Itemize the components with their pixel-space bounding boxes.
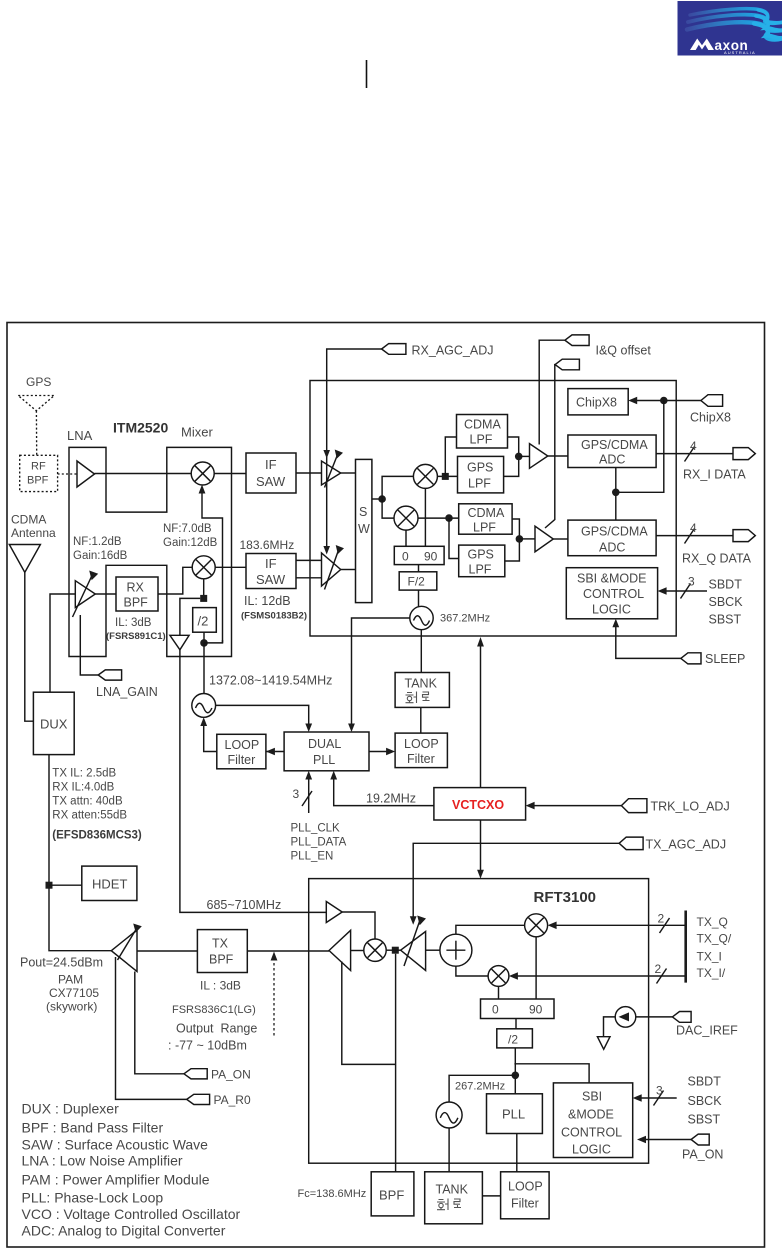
TX output amp (points left) [329, 930, 351, 970]
wire SW output node [372, 498, 382, 500]
flag I&Q offset upper [565, 335, 589, 346]
TX BPF [197, 930, 247, 973]
wire PAM to TX BPF [137, 950, 197, 952]
wires LPF pair1 outputs join [504, 437, 519, 476]
svg-text:RX_AGC_ADJ: RX_AGC_ADJ [412, 344, 494, 358]
svg-text:VCTCXO: VCTCXO [452, 798, 504, 812]
wire LOOP filter to VCO [204, 722, 217, 752]
wire mixer4 to LPF pair 2 [418, 517, 459, 519]
svg-text:CDMA: CDMA [11, 513, 46, 527]
wire DUX top to RX varamp input [50, 594, 75, 692]
svg-text:ADC: Analog to Digital Convert: ADC: Analog to Digital Converter [22, 1223, 226, 1239]
HDET [82, 866, 137, 900]
svg-text:PLL_CLK: PLL_CLK [291, 823, 341, 835]
svg-text:LOOP: LOOP [404, 737, 439, 751]
wire node to TX osc [449, 1075, 515, 1102]
svg-text:SBCK: SBCK [709, 595, 744, 609]
wire ADC2 to RX_Q DATA [656, 535, 733, 537]
svg-text:NF:7.0dB: NF:7.0dB [163, 523, 212, 535]
wire TANK to LOOP filter2 [420, 707, 422, 733]
PLL control bus [308, 776, 310, 814]
node at VCO feed [200, 639, 208, 647]
svg-text:ChipX8: ChipX8 [576, 396, 617, 410]
wire VCTCXO down to RFT3100 [480, 820, 482, 874]
wire node to mixer3 [382, 476, 413, 499]
wire ChipX8 node to ADC clock node [616, 401, 664, 493]
TX BPF(IF) block [371, 1172, 414, 1216]
wire RF BPF to LNA (dotted) [58, 473, 77, 475]
wire node to mixer1 LO riser [204, 640, 223, 643]
flag TRK_LO_ADJ [621, 799, 647, 813]
korean hoeros RX [406, 692, 430, 704]
svg-text:LPF: LPF [468, 477, 491, 491]
svg-text:Antenna: Antenna [11, 526, 56, 540]
wire mixer1 to IF SAW1 [214, 473, 246, 475]
svg-text:Output Range: Output Range [176, 1022, 257, 1036]
PAM amplifier (variable, points left) [111, 930, 137, 972]
divider /2 [193, 608, 217, 633]
mixer M7 [488, 966, 509, 987]
svg-text:19.2MHz: 19.2MHz [366, 792, 416, 806]
wire buffer down to TX path [180, 650, 326, 913]
svg-text:LNA : Low Noise Amplifier: LNA : Low Noise Amplifier [22, 1153, 183, 1169]
TX LO buffer amp [326, 902, 342, 923]
wire SBI bus in [661, 590, 707, 592]
RFT3100 block [309, 879, 649, 1164]
svg-text:CDMA: CDMA [468, 506, 505, 520]
wire RX VCO down to TANK [420, 630, 422, 673]
SBI &MODE CONTROL LOGIC (TX) [553, 1083, 632, 1158]
svg-text:BPF: BPF [27, 475, 49, 487]
wire PA_ON to SBI (TX) [641, 1139, 692, 1141]
wire /2 to node [203, 632, 205, 643]
wire ADC1 to RX_I DATA [656, 453, 733, 455]
wire PLL to TX LOOP filter [516, 1134, 518, 1172]
wire RX_AGC_ADJ to varamps [327, 349, 382, 550]
svg-text:SAW: SAW [256, 474, 286, 489]
header tick mark [366, 60, 368, 88]
svg-text:PLL_EN: PLL_EN [291, 851, 334, 863]
wire varamp to RX BPF [95, 593, 116, 595]
svg-text:LOOP: LOOP [225, 738, 260, 752]
svg-text:DUX: DUX [40, 717, 68, 732]
IF SAW2 [246, 554, 296, 589]
wire buffer2 to ADC2 [553, 538, 568, 540]
TX divider /2 [497, 1029, 533, 1048]
wire node to buffer2 [519, 538, 535, 540]
junction square on LO line [200, 595, 207, 602]
svg-text:GPS: GPS [468, 548, 494, 562]
mixer M5 [364, 939, 386, 961]
LOOP Filter (left) [217, 734, 266, 769]
wire 19.2MHz from VCTCXO to DUAL PLL [334, 776, 434, 806]
svg-text:PLL: PLL [502, 1107, 525, 1122]
svg-text:SAW: SAW [256, 572, 286, 587]
svg-text:90: 90 [529, 1003, 543, 1017]
mixer1 LO feed [202, 489, 223, 643]
flag SLEEP [681, 653, 701, 664]
svg-text:PLL: PLL [313, 753, 335, 767]
svg-text:TX IL: 2.5dB: TX IL: 2.5dB [52, 768, 116, 780]
svg-text:: -77 ~ 10dBm: : -77 ~ 10dBm [168, 1039, 247, 1053]
wire mixer3 to LPF pair 1 [437, 475, 457, 477]
svg-text:LOGIC: LOGIC [592, 603, 631, 617]
svg-text:GPS: GPS [467, 461, 493, 475]
svg-text:BPF: BPF [379, 1188, 404, 1203]
svg-text:CX77105: CX77105 [49, 986, 99, 1000]
wire node to VCO [203, 643, 205, 694]
svg-text:IF: IF [265, 556, 277, 571]
svg-text:(FSRS891C1): (FSRS891C1) [106, 631, 166, 642]
wire mixer5 node to TX BPF(IF) [395, 954, 397, 1172]
wire square node to TX LO buffer [180, 598, 200, 635]
svg-text:NF:1.2dB: NF:1.2dB [73, 536, 122, 548]
svg-text:(EFSD836MCS3): (EFSD836MCS3) [52, 830, 142, 842]
svg-text:ITM2520: ITM2520 [113, 420, 168, 436]
svg-text:3: 3 [656, 1084, 663, 1098]
svg-text:RX_I DATA: RX_I DATA [683, 468, 746, 482]
svg-text:CONTROL: CONTROL [561, 1126, 622, 1140]
svg-text:TX_AGC_ADJ: TX_AGC_ADJ [646, 838, 727, 852]
svg-text:LPF: LPF [473, 521, 496, 535]
svg-text:DAC_IREF: DAC_IREF [676, 1024, 738, 1038]
svg-text:RFT3100: RFT3100 [534, 889, 597, 906]
RX VCO oscillator [410, 606, 433, 629]
mixer M6 [525, 914, 548, 937]
svg-text:Filter: Filter [228, 753, 256, 767]
svg-text:SAW : Surface Acoustic Wave: SAW : Surface Acoustic Wave [22, 1137, 209, 1153]
RX back-end block [310, 381, 676, 637]
svg-text:GPS: GPS [26, 375, 51, 389]
svg-text:HDET: HDET [92, 877, 127, 892]
TX phase splitter 0 90 [481, 999, 555, 1019]
svg-text:4: 4 [690, 521, 697, 535]
flag TX_AGC_ADJ [619, 837, 643, 850]
divider F/2 [399, 572, 437, 590]
svg-text:FSRS836C1(LG): FSRS836C1(LG) [172, 1004, 256, 1016]
wire varamp1 to SW [341, 472, 356, 474]
svg-text:PA_R0: PA_R0 [214, 1093, 251, 1107]
svg-text:CONTROL: CONTROL [583, 587, 644, 601]
SBI control tap [514, 1064, 589, 1083]
svg-text:2: 2 [655, 962, 662, 976]
svg-text:CDMA: CDMA [464, 418, 501, 432]
wire I&Q offset 2 to buffer2 [545, 365, 555, 528]
feedback tap to TX output amp [342, 962, 396, 1065]
svg-text:PA_ON: PA_ON [211, 1068, 251, 1082]
wire PA_R0 flag to PAM [116, 957, 187, 1099]
CDMA LPF 2 [459, 504, 512, 534]
wire DAC_IREF flag to source [636, 1016, 673, 1018]
svg-text:LPF: LPF [469, 563, 492, 577]
svg-text:Filter: Filter [407, 752, 435, 766]
korean hoeros TX [437, 1199, 461, 1211]
mixer2 LO feed [203, 579, 205, 599]
svg-text:PLL_DATA: PLL_DATA [291, 837, 347, 849]
mixer M2 [192, 556, 215, 579]
wire node to buffer1 [519, 455, 530, 457]
svg-text:LOGIC: LOGIC [572, 1143, 611, 1157]
ChipX8 block [568, 389, 628, 415]
mixer M3 (I) [413, 464, 437, 488]
svg-text:1372.08~1419.54MHz: 1372.08~1419.54MHz [209, 674, 332, 688]
wire RX VCO to DUAL PLL [352, 618, 410, 729]
svg-text:0: 0 [402, 550, 409, 564]
IF SAW2 differential outputs [296, 559, 322, 561]
TX VCO oscillator (1372-1419MHz) [192, 694, 216, 718]
junction square at HDET tap [46, 882, 53, 889]
bus slash RX_I [685, 447, 695, 462]
svg-text:367.2MHz: 367.2MHz [440, 613, 490, 625]
GPS antenna (dotted) [18, 396, 54, 456]
svg-text:TANK: TANK [436, 1183, 469, 1197]
TX variable amp (points left) [401, 932, 426, 971]
svg-text:LOOP: LOOP [508, 1180, 543, 1194]
svg-text:SBCK: SBCK [688, 1094, 723, 1108]
svg-text:LNA: LNA [67, 428, 93, 443]
svg-text:GPS/CDMA: GPS/CDMA [581, 438, 648, 452]
junction square after mixer5 [392, 947, 399, 954]
TX IQ bus bar [684, 911, 687, 983]
svg-text:SBI: SBI [582, 1090, 602, 1104]
mixer6 LO drop [535, 937, 537, 999]
svg-text:IL: 12dB: IL: 12dB [244, 594, 291, 608]
Q buffer amp [535, 526, 553, 552]
GPS/CDMA ADC 2 [568, 520, 656, 556]
svg-text:267.2MHz: 267.2MHz [455, 1081, 505, 1093]
svg-text:Gain:16dB: Gain:16dB [73, 550, 128, 562]
wire DUAL PLL to LOOP filter right [369, 751, 391, 753]
svg-text:SBI &MODE: SBI &MODE [577, 572, 646, 586]
TANK block (RX) [395, 673, 449, 708]
svg-text:SBST: SBST [688, 1113, 721, 1127]
svg-text:BPF: BPF [124, 596, 149, 610]
flag DAC_IREF [672, 1012, 691, 1023]
SBI &MODE CONTROL LOGIC (RX) [566, 568, 657, 619]
svg-text:LPF: LPF [470, 433, 493, 447]
svg-text:TRK_LO_ADJ: TRK_LO_ADJ [651, 800, 730, 814]
IF variable amp 1 [322, 461, 341, 485]
wire VCTCXO up into RX block [480, 646, 482, 788]
wire TX TANK to TX LOOP filter [482, 1195, 500, 1197]
RX BPF [116, 577, 158, 611]
wire node to mixer4 [382, 499, 394, 518]
svg-text:PAM : Power Amplifier Module: PAM : Power Amplifier Module [22, 1172, 210, 1188]
wires LPF pair2 outputs join [505, 519, 520, 561]
wire DUX bottom to PAM line [49, 755, 111, 951]
svg-text:TX attn: 40dB: TX attn: 40dB [52, 796, 123, 808]
svg-text:LNA_GAIN: LNA_GAIN [96, 685, 158, 699]
svg-text:BPF : Band Pass Filter: BPF : Band Pass Filter [22, 1120, 164, 1136]
wire RX BPF to mixer2 [158, 567, 192, 594]
SW switch block [356, 459, 372, 602]
wire LNA_GAIN to varamp [80, 615, 98, 675]
svg-text:DUAL: DUAL [308, 737, 341, 751]
flag ChipX8 [701, 395, 723, 407]
svg-text:RX atten:55dB: RX atten:55dB [52, 810, 127, 822]
svg-text:Gain:12dB: Gain:12dB [163, 537, 218, 549]
wire ADC1-ADC2 link [615, 468, 617, 521]
ITM2520 chip outline [69, 447, 232, 656]
wire LO buffer to mixer5 [342, 912, 375, 939]
svg-text:/2: /2 [198, 614, 209, 629]
svg-text:PA_ON: PA_ON [682, 1148, 723, 1162]
svg-text:IL: 3dB: IL: 3dB [115, 617, 152, 629]
wire varamp2 to SW [341, 569, 356, 571]
svg-text:RX: RX [127, 581, 145, 595]
RX variable amplifier [75, 581, 95, 608]
svg-text:0: 0 [492, 1003, 499, 1017]
flag I&Q offset lower [555, 359, 579, 370]
svg-text:TX_Q/: TX_Q/ [697, 932, 732, 946]
LNA amplifier [77, 461, 95, 487]
TX oscillator [436, 1102, 462, 1128]
wire F/2 to RX VCO [418, 590, 420, 606]
dashed measure arrow [273, 958, 275, 1036]
svg-text:/2: /2 [508, 1033, 518, 1047]
bus slash RX_Q [685, 529, 695, 544]
ground [597, 1037, 610, 1050]
svg-text:4: 4 [690, 439, 697, 453]
mixer7 LO drop [498, 986, 500, 999]
flag PA_ON [184, 1069, 207, 1079]
mixer M4 (Q) [394, 506, 418, 530]
IF variable amp 2 [322, 553, 341, 586]
wire TRK_LO_ADJ to VCTCXO [529, 805, 621, 807]
svg-text:IL : 3dB: IL : 3dB [200, 979, 241, 993]
summing junction [440, 934, 472, 966]
wire tap to HDET [49, 884, 82, 886]
mixer4 LO drop to 0/90 [405, 530, 407, 546]
flag RX_I DATA [733, 448, 755, 460]
svg-text:SBDT: SBDT [688, 1075, 722, 1089]
svg-text:F/2: F/2 [408, 575, 426, 589]
svg-text:ADC: ADC [599, 541, 625, 555]
wire mixer6 to summer [456, 925, 525, 934]
svg-text:PLL: Phase-Lock Loop: PLL: Phase-Lock Loop [22, 1190, 164, 1206]
svg-text:(skywork): (skywork) [46, 1000, 97, 1014]
wire buffer1 to ADC1 [548, 455, 568, 457]
svg-text:Mixer: Mixer [181, 425, 213, 440]
phase splitter 0 90 [394, 546, 444, 564]
svg-text:3: 3 [688, 575, 695, 589]
wire TX_I into mixer7 [513, 975, 686, 977]
svg-text:TX_Q: TX_Q [697, 915, 728, 929]
svg-text:VCO : Voltage Controlled Oscil: VCO : Voltage Controlled Oscillator [22, 1206, 241, 1222]
svg-text:ADC: ADC [599, 453, 625, 467]
wire DUAL PLL to LOOP filter left [266, 751, 284, 753]
wire mixer7 to summer [456, 966, 488, 976]
svg-text:TX_I: TX_I [697, 950, 722, 964]
wire ChipX8 flag to block [632, 400, 701, 402]
mixer3 LO drop to 0/90 [424, 488, 426, 546]
wire TX_AGC_ADJ to TX varamp [413, 843, 619, 920]
svg-text:2: 2 [658, 912, 665, 926]
svg-text:SBDT: SBDT [709, 578, 743, 592]
flag PA_ON (TX) [691, 1134, 709, 1145]
svg-text:RX IL:4.0dB: RX IL:4.0dB [52, 782, 114, 794]
CDMA antenna [9, 545, 40, 573]
wire I&Q offset 1 to buffer1 [539, 340, 565, 444]
svg-text:ChipX8: ChipX8 [690, 411, 731, 425]
svg-text:BPF: BPF [209, 953, 234, 967]
svg-text:TX_I/: TX_I/ [697, 966, 726, 980]
GPS LPF 1 [458, 456, 504, 493]
RF BPF (dotted box) [20, 455, 58, 491]
DUAL PLL block [284, 732, 369, 771]
svg-text:TX: TX [212, 937, 229, 951]
svg-text:W: W [358, 522, 370, 536]
GPS/CDMA ADC 1 [568, 435, 656, 468]
wire 0/90 to /2 [515, 1019, 517, 1029]
svg-text:SBST: SBST [709, 613, 742, 627]
wire 0/90 to F/2 [418, 565, 420, 572]
svg-text:(FSMS0183B2): (FSMS0183B2) [241, 611, 307, 622]
svg-text:I&Q offset: I&Q offset [596, 344, 652, 358]
TX PLL block [487, 1094, 543, 1134]
wire amp to mixer5 [351, 950, 364, 952]
wire LNA to mixer1 [95, 473, 192, 475]
wire VCO to DUAL PLL [216, 705, 309, 728]
svg-text:3: 3 [293, 787, 300, 801]
svg-text:IF: IF [265, 457, 277, 472]
diagram outer frame [7, 323, 765, 1248]
svg-text:AUSTRALIA: AUSTRALIA [724, 50, 756, 55]
wire mixer2 to IF SAW2 [215, 566, 246, 568]
wire PA_ON flag to PAM [135, 972, 184, 1074]
svg-text:S: S [359, 505, 367, 519]
wire source to ground [604, 1017, 616, 1037]
I buffer amp [530, 444, 548, 469]
svg-text:SLEEP: SLEEP [705, 652, 745, 666]
VCTCXO block [434, 788, 526, 820]
DUX [33, 692, 74, 754]
flag RX_Q DATA [733, 530, 755, 542]
flag RX_AGC_ADJ [382, 344, 406, 355]
svg-text:183.6MHz: 183.6MHz [240, 538, 295, 552]
wire osc to TX TANK [448, 1128, 450, 1172]
TX LOOP Filter [501, 1172, 549, 1219]
mixer M1 [191, 462, 214, 485]
wire SBI bus in (TX) [636, 1097, 676, 1099]
GPS LPF 2 [459, 545, 505, 577]
wire /2 to LO node [514, 1048, 516, 1094]
svg-text:PAM: PAM [58, 973, 83, 987]
IF SAW1 [246, 453, 296, 493]
svg-text:GPS/CDMA: GPS/CDMA [581, 525, 648, 539]
logo text Maxon [690, 39, 714, 51]
wire TX_Q into mixer6 [551, 924, 686, 926]
flag LNA_GAIN [98, 670, 121, 680]
wire SLEEP to SBI [616, 623, 681, 659]
wire IF SAW1 to varamp1 [296, 472, 322, 474]
flag PA_R0 [187, 1094, 210, 1104]
svg-text:Pout=24.5dBm: Pout=24.5dBm [20, 956, 103, 970]
svg-text:RF: RF [31, 461, 46, 473]
svg-text:Fc=138.6MHz: Fc=138.6MHz [298, 1188, 367, 1200]
svg-text:DUX : Duplexer: DUX : Duplexer [22, 1101, 120, 1117]
TX LO buffer (points down) [170, 635, 189, 650]
svg-text:RX_Q DATA: RX_Q DATA [682, 552, 752, 566]
wire CDMA antenna to DUX [25, 572, 34, 721]
Maxon Australia logo [678, 1, 782, 56]
CDMA LPF 1 [457, 415, 508, 449]
TX TANK block [425, 1172, 483, 1224]
wire summer to TX varamp [426, 949, 440, 951]
svg-text:TANK: TANK [405, 677, 438, 691]
LOOP Filter (right) [395, 733, 447, 768]
svg-text:Filter: Filter [511, 1197, 539, 1211]
